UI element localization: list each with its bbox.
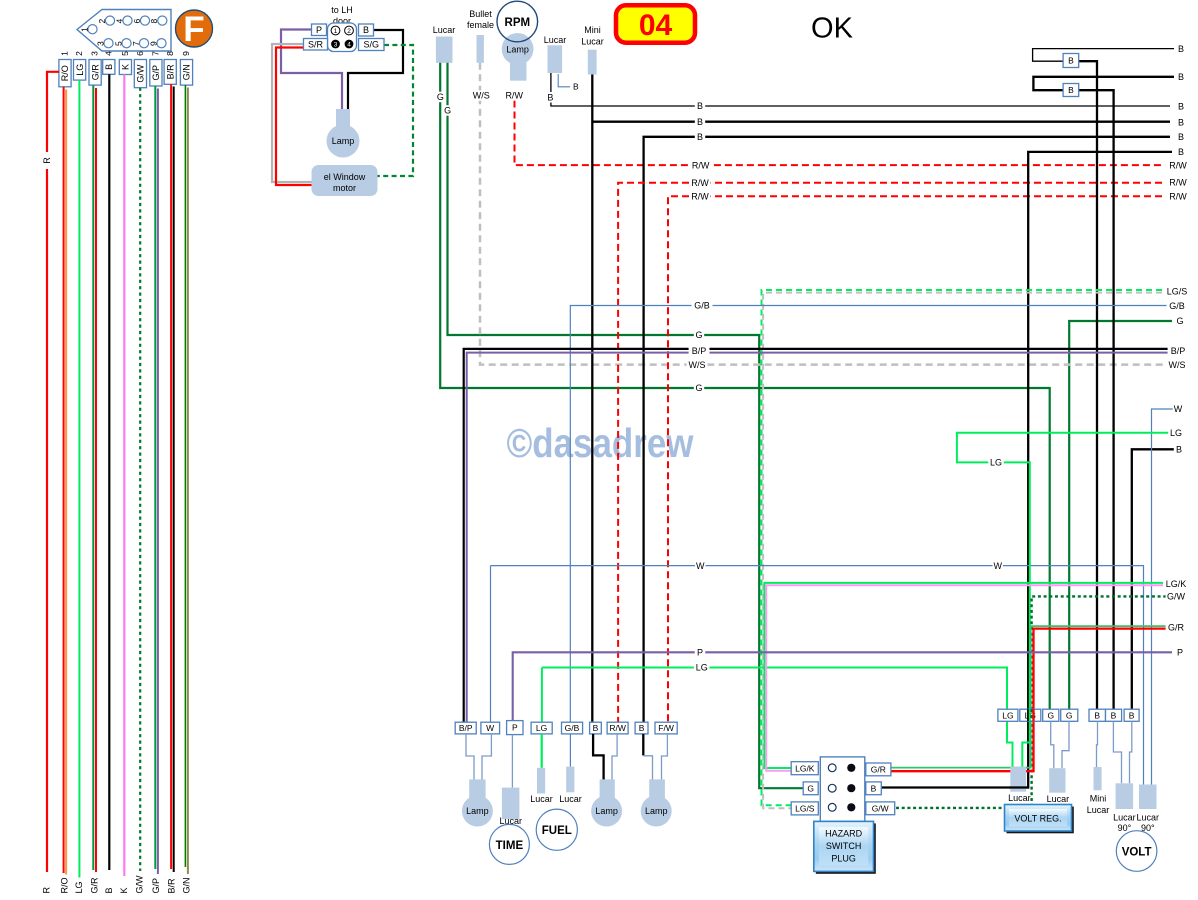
svg-text:S/G: S/G <box>363 40 379 50</box>
svg-text:Lamp: Lamp <box>332 136 355 146</box>
hazard pin row 3 <box>828 803 836 811</box>
terminal label box R/W <box>607 722 628 734</box>
edge label R/W <box>1168 191 1189 202</box>
hazard label G/R <box>866 763 891 776</box>
svg-text:W/S: W/S <box>473 91 490 101</box>
wire B/R red <box>170 84 172 869</box>
wire B crossing (redraw) <box>1027 709 1029 721</box>
svg-text:W/S: W/S <box>689 360 706 370</box>
terminal box LG right <box>998 709 1018 721</box>
wire R/O orange <box>65 90 67 875</box>
lamp bottom no3 <box>649 779 665 804</box>
hazard pin row 2 <box>828 784 836 792</box>
wire G/B into Lucar <box>569 734 571 767</box>
Lucar 90 no1 <box>1116 783 1134 809</box>
Lucar below G/B <box>566 767 574 793</box>
svg-text:Lamp: Lamp <box>595 806 618 816</box>
svg-text:G/R: G/R <box>90 877 100 894</box>
wire G/R red <box>95 88 97 872</box>
leader B/P to lamp <box>466 734 474 781</box>
edge label LG/K <box>1163 579 1189 590</box>
svg-text:G: G <box>695 330 702 340</box>
wire LG right with inline label <box>957 433 1172 767</box>
edge label R/W <box>1168 177 1189 188</box>
VOLT gauge <box>1116 831 1157 872</box>
svg-text:G: G <box>1176 316 1183 326</box>
svg-text:1: 1 <box>60 51 70 56</box>
wire LG left long <box>542 668 1013 767</box>
hazard label LG/K <box>791 762 818 775</box>
svg-text:2: 2 <box>347 28 351 35</box>
svg-text:B: B <box>573 82 579 92</box>
wire P purple long <box>513 652 1172 720</box>
pin label box K pin 5 <box>119 60 131 75</box>
svg-text:B: B <box>1178 72 1184 82</box>
svg-text:P: P <box>316 25 322 35</box>
edge label B <box>1174 444 1184 455</box>
svg-text:HAZARD: HAZARD <box>825 829 863 839</box>
terminal box G right <box>1061 709 1078 721</box>
svg-text:LG: LG <box>990 458 1002 468</box>
svg-text:3: 3 <box>90 51 100 56</box>
svg-text:G: G <box>1047 710 1054 720</box>
HAZARD SWITCH PLUG box <box>816 823 876 873</box>
badge F <box>176 10 213 47</box>
wire K pink <box>123 75 125 877</box>
svg-text:K: K <box>121 64 131 70</box>
svg-text:4: 4 <box>114 18 124 23</box>
hazard label G <box>803 782 818 795</box>
svg-text:LG: LG <box>74 881 84 893</box>
svg-text:4: 4 <box>103 51 113 56</box>
svg-text:R/W: R/W <box>609 723 626 733</box>
terminal box B right <box>1089 709 1106 721</box>
connector F pin 9 <box>157 39 166 48</box>
label LG <box>988 457 1004 468</box>
edge label B <box>1176 43 1186 54</box>
edge label LG <box>1168 428 1184 439</box>
svg-text:RPM: RPM <box>505 17 531 29</box>
wire R/O red <box>63 87 65 873</box>
svg-text:B: B <box>1178 132 1184 142</box>
connector F pin 4 <box>123 16 132 25</box>
FUEL gauge <box>536 809 577 850</box>
LH door pin 3 <box>331 40 340 49</box>
wire G from Lucar to G box (right bottom) <box>440 63 1049 709</box>
svg-text:G: G <box>444 106 451 116</box>
wire B over Lucar <box>1009 786 1029 788</box>
label W/S <box>687 359 708 370</box>
pin label box G/P pin 7 <box>150 60 162 87</box>
wire S/G green dashed from door to window motor <box>378 45 414 176</box>
label W/S <box>471 90 492 101</box>
pin label box S/R <box>304 39 328 51</box>
pin label box B pin 4 <box>103 60 115 75</box>
svg-text:R/W: R/W <box>1169 160 1187 170</box>
svg-text:B: B <box>363 25 369 35</box>
label LG <box>694 662 710 673</box>
svg-text:B/R: B/R <box>165 64 175 80</box>
svg-text:W/S: W/S <box>1169 360 1186 370</box>
Lucar right no2 <box>1049 768 1065 793</box>
svg-text:G: G <box>695 383 702 393</box>
svg-text:P: P <box>1177 648 1183 658</box>
wire B no6 down to hazard switch <box>881 152 1172 788</box>
svg-text:R/W: R/W <box>505 91 523 101</box>
wire G/R red <box>891 629 1172 772</box>
pin label box P <box>312 24 327 36</box>
svg-text:7: 7 <box>151 51 161 56</box>
hazard pin row 1 <box>828 764 836 772</box>
wire B black to lamp <box>348 30 403 109</box>
svg-text:G/P: G/P <box>151 878 161 894</box>
svg-text:S/R: S/R <box>308 40 324 50</box>
svg-text:female: female <box>467 20 494 30</box>
wire LG/K green <box>764 583 1172 768</box>
svg-text:B: B <box>871 783 877 793</box>
svg-text:5: 5 <box>120 51 130 56</box>
svg-text:G: G <box>437 92 444 102</box>
wire LG/S gray dashed <box>763 293 1172 809</box>
svg-text:B: B <box>1068 56 1074 66</box>
label B <box>695 132 705 143</box>
edge label R/W <box>1168 160 1189 171</box>
LH door pin 1 <box>331 26 340 35</box>
wire G/W dark green dotted <box>895 596 1172 808</box>
svg-text:B: B <box>593 723 599 733</box>
svg-text:G/W: G/W <box>135 875 145 894</box>
TIME gauge <box>489 824 529 864</box>
svg-text:B/P: B/P <box>459 723 473 733</box>
terminal label box G/B <box>562 722 583 734</box>
lamp bottom no2 <box>600 779 615 804</box>
label P <box>695 647 705 658</box>
pin label box G/N pin 9 <box>180 60 192 86</box>
svg-text:R/W: R/W <box>691 192 709 202</box>
pin label box B/R pin 8 <box>164 60 176 85</box>
wire G/R green part <box>891 626 1172 768</box>
connector LH door 4-pin <box>328 23 357 52</box>
svg-text:B: B <box>547 92 553 102</box>
svg-text:B: B <box>1178 44 1184 54</box>
terminal box G right <box>1043 709 1059 721</box>
label R/W <box>690 160 711 171</box>
wire G/R green <box>92 85 94 870</box>
wire R mid label <box>42 152 53 169</box>
leader P to Lucar <box>511 735 513 788</box>
pin label box G/W pin 6 <box>134 60 146 88</box>
svg-text:B: B <box>1129 710 1135 720</box>
leader F/W to lamp3 <box>662 734 668 781</box>
Lucar right no1 <box>1010 767 1026 792</box>
wire W/S gray dashed <box>480 63 1168 365</box>
connector F pentagon shell <box>77 10 171 52</box>
hazard label B <box>866 782 882 795</box>
svg-text:motor: motor <box>333 183 356 193</box>
svg-text:to LH: to LH <box>331 5 353 15</box>
Lucar below P <box>502 788 520 820</box>
leader B box2 to Lucar 90 no1 <box>1113 721 1121 783</box>
svg-text:VOLT REG.: VOLT REG. <box>1014 814 1061 824</box>
svg-text:G/W: G/W <box>136 64 146 83</box>
wire G/P purple <box>157 89 159 875</box>
svg-text:Lamp: Lamp <box>645 806 668 816</box>
edge label B <box>1176 72 1186 83</box>
svg-text:G: G <box>807 783 814 793</box>
Lucar 90 no2 <box>1139 785 1157 810</box>
leader B to lamp3 <box>643 756 652 781</box>
label B <box>545 92 555 103</box>
svg-text:Lucar: Lucar <box>1008 793 1031 803</box>
svg-text:G/B: G/B <box>1169 301 1185 311</box>
svg-text:W: W <box>486 723 494 733</box>
svg-text:3: 3 <box>95 41 105 46</box>
pin label box R/O pin 1 <box>59 60 71 87</box>
svg-text:SWITCH: SWITCH <box>826 841 862 851</box>
wire B pin4 <box>108 74 110 870</box>
svg-text:B: B <box>639 723 645 733</box>
edge label G <box>1175 316 1185 327</box>
svg-text:el Window: el Window <box>324 172 366 182</box>
svg-text:B: B <box>1178 147 1184 157</box>
svg-text:Bullet: Bullet <box>469 9 492 19</box>
svg-text:R: R <box>42 157 52 164</box>
svg-text:G: G <box>1066 710 1073 720</box>
wire G/P green <box>154 86 156 869</box>
wire LG/K pink <box>766 585 1172 771</box>
svg-text:G/R: G/R <box>90 64 100 81</box>
svg-text:K: K <box>119 887 129 893</box>
svg-text:Mini: Mini <box>1090 794 1107 804</box>
svg-text:B: B <box>697 132 703 142</box>
connector F pin 1 <box>88 25 97 34</box>
label G <box>435 92 445 103</box>
wire B/P purple <box>467 353 1172 723</box>
svg-text:FUEL: FUEL <box>542 825 572 837</box>
RPM gauge <box>497 1 538 42</box>
label G <box>694 383 704 394</box>
edge label W <box>1173 404 1183 415</box>
svg-text:G/N: G/N <box>182 64 192 80</box>
Mini Lucar bottom <box>1094 767 1102 790</box>
svg-text:P: P <box>512 723 518 733</box>
wire G from Lucar to hazard switch G <box>448 63 804 788</box>
connector F pin 8 <box>158 16 167 25</box>
hazard label G/W <box>866 802 895 815</box>
svg-text:TIME: TIME <box>496 840 524 852</box>
svg-text:VOLT: VOLT <box>1122 847 1152 859</box>
edge label B <box>1176 132 1186 143</box>
svg-text:R/O: R/O <box>60 877 70 893</box>
svg-text:G/P: G/P <box>151 65 161 81</box>
svg-text:LG: LG <box>1170 428 1182 438</box>
pin label box G/R pin 3 <box>89 60 101 86</box>
wire W upper elbow <box>1152 409 1175 785</box>
svg-text:W: W <box>696 561 705 571</box>
terminal label box LG <box>531 722 552 734</box>
svg-text:F: F <box>183 10 204 49</box>
svg-text:Lucar: Lucar <box>1113 813 1136 823</box>
svg-text:LG/K: LG/K <box>795 763 815 773</box>
svg-text:Lucar: Lucar <box>544 35 567 45</box>
svg-text:B: B <box>1111 710 1117 720</box>
svg-text:B/P: B/P <box>692 346 707 356</box>
wire B thin from Lucar <box>551 73 1170 106</box>
terminal label box F/W <box>655 722 677 734</box>
svg-text:OK: OK <box>811 13 854 45</box>
svg-text:R/W: R/W <box>691 178 709 188</box>
inline box B no2 <box>1063 84 1079 97</box>
wire B from Mini Lucar down to B box <box>591 75 593 723</box>
terminal label box B <box>590 722 602 734</box>
svg-text:R/O: R/O <box>60 65 70 81</box>
svg-text:LG/S: LG/S <box>795 804 815 814</box>
svg-text:5: 5 <box>113 41 123 46</box>
wire B branch right <box>592 121 1170 123</box>
label R/W <box>690 191 711 202</box>
wire B into lamp2 <box>593 734 604 781</box>
wire LG/S green dashed <box>762 290 1173 805</box>
LH door pin 4 <box>345 40 354 49</box>
label B <box>695 117 705 128</box>
svg-text:G/W: G/W <box>1167 592 1186 602</box>
svg-text:6: 6 <box>135 51 145 56</box>
leader B box3 to Lucar 90 no1 <box>1130 721 1132 783</box>
terminal box B right <box>1124 709 1139 721</box>
svg-text:LG: LG <box>75 64 85 76</box>
wire B right elbow to B box3 <box>1132 449 1174 709</box>
connector F pin 6 <box>140 16 149 25</box>
wire S gray to window motor <box>272 44 312 182</box>
svg-text:R: R <box>42 887 52 894</box>
terminal box B right <box>1106 709 1122 721</box>
wire LG <box>78 80 80 877</box>
label R/W <box>504 90 525 101</box>
svg-text:4: 4 <box>347 41 351 48</box>
svg-text:F/W: F/W <box>658 723 674 733</box>
svg-text:B: B <box>1094 710 1100 720</box>
svg-text:04: 04 <box>639 9 673 42</box>
label G <box>442 105 452 116</box>
wire P purple to lamp <box>281 30 342 110</box>
wire R/W no2 elbow <box>618 183 1162 722</box>
pin label box B <box>359 24 374 36</box>
wire R/W no3 elbow <box>668 196 1162 722</box>
label G/B <box>692 300 713 311</box>
svg-text:B: B <box>1178 118 1184 128</box>
wire G right segment to G box 2 <box>1069 321 1172 709</box>
svg-text:Mini: Mini <box>584 25 601 35</box>
edge label B <box>1176 101 1186 112</box>
wire B no1 with inline B box <box>1033 49 1174 62</box>
wire W long horizontal <box>491 566 1144 785</box>
el Window motor <box>312 165 378 196</box>
svg-text:B: B <box>1068 85 1074 95</box>
svg-text:Lucar: Lucar <box>1047 794 1070 804</box>
svg-text:Lucar: Lucar <box>559 794 582 804</box>
terminal label box B/P <box>455 722 476 734</box>
lamp bottom no1 <box>469 779 485 804</box>
svg-text:1: 1 <box>79 27 89 32</box>
svg-text:Lucar: Lucar <box>1087 805 1110 815</box>
terminal label box P <box>507 721 523 735</box>
lamp LH door <box>336 109 350 129</box>
edge label B <box>1176 147 1186 158</box>
wire B below box no8 <box>642 734 644 756</box>
svg-text:9: 9 <box>181 51 191 56</box>
svg-text:B: B <box>104 64 114 70</box>
svg-text:B: B <box>1176 445 1182 455</box>
svg-text:2: 2 <box>97 18 107 23</box>
wire R branch <box>47 72 59 872</box>
svg-text:Lucar: Lucar <box>433 25 456 35</box>
wire B/P black <box>464 349 1172 722</box>
leader B of Lucar <box>558 74 570 87</box>
wire G/B thin blue <box>570 306 1172 723</box>
wire G/N olive <box>187 88 189 875</box>
edge label G/R <box>1166 622 1187 633</box>
svg-text:R/W: R/W <box>1169 192 1187 202</box>
svg-text:2: 2 <box>74 51 84 56</box>
label B/P <box>689 346 710 357</box>
wire LG below LG box left <box>541 734 543 768</box>
pin label box S/G <box>359 39 385 51</box>
leader B box1 to Mini Lucar <box>1097 721 1098 767</box>
edge label G/B <box>1167 301 1188 312</box>
wire B/R black <box>173 87 175 873</box>
edge label B <box>1176 117 1186 128</box>
Lucar below LG <box>537 768 545 794</box>
label B <box>695 101 705 112</box>
RPM lamp <box>502 33 534 65</box>
leader R/W to lamp2 <box>612 734 617 781</box>
svg-text:LG/K: LG/K <box>1166 579 1187 589</box>
svg-text:G/N: G/N <box>182 877 192 893</box>
leader G box2 to Lucar2 <box>1062 721 1069 768</box>
pin label box LG pin 2 <box>74 60 86 81</box>
VOLT REG box <box>1007 807 1074 834</box>
svg-text:W: W <box>994 561 1003 571</box>
svg-text:LG: LG <box>1002 710 1013 720</box>
connector F pin 2 <box>105 16 114 25</box>
svg-text:B/P: B/P <box>1171 346 1186 356</box>
svg-text:R/W: R/W <box>1169 178 1187 188</box>
wire B elbow no5 <box>644 137 1170 722</box>
svg-text:B: B <box>697 101 703 111</box>
wire R/W no1 from RPM lamp <box>515 101 1163 166</box>
label W <box>695 560 705 571</box>
svg-text:R/W: R/W <box>692 160 710 170</box>
edge label G/W <box>1166 591 1187 602</box>
wire G/N green <box>184 85 186 867</box>
svg-text:W: W <box>1174 404 1183 414</box>
terminal label box B <box>635 722 648 734</box>
connector F pin 5 <box>122 39 131 48</box>
svg-text:9: 9 <box>148 41 158 46</box>
svg-text:©dasadrew: ©dasadrew <box>507 420 694 466</box>
svg-text:B/R: B/R <box>167 878 177 894</box>
svg-text:6: 6 <box>132 18 142 23</box>
leader W to lamp <box>482 734 491 781</box>
connector F pin 3 <box>104 39 113 48</box>
svg-text:Lucar: Lucar <box>530 794 553 804</box>
svg-text:7: 7 <box>131 41 141 46</box>
svg-text:G/R: G/R <box>1168 623 1185 633</box>
label G <box>694 330 704 341</box>
terminal label box W <box>481 722 500 734</box>
terminal box LG right <box>1020 709 1041 721</box>
svg-text:8: 8 <box>149 18 159 23</box>
